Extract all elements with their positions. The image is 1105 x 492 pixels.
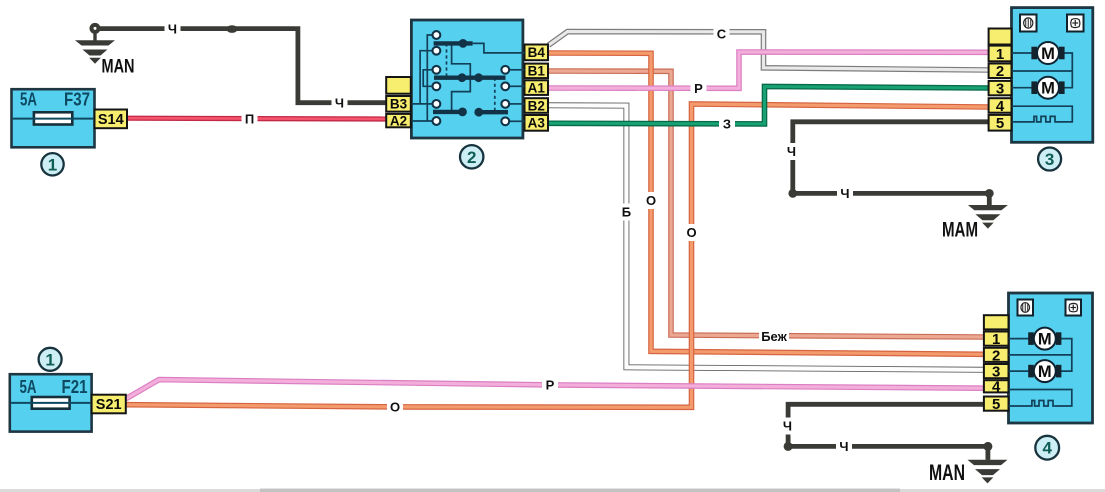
svg-text:О: О — [686, 225, 696, 240]
switch internal elbows — [452, 43, 471, 77]
node 4 — [1035, 436, 1059, 460]
terminal B1 — [525, 64, 549, 79]
svg-text:M: M — [1041, 80, 1055, 98]
svg-text:S14: S14 — [98, 112, 124, 128]
switch moving contact bottom — [433, 110, 466, 114]
svg-text:С: С — [717, 26, 727, 41]
switch moving contact middle — [434, 75, 506, 79]
svg-text:S21: S21 — [96, 397, 122, 413]
switch mechanical dashed links — [446, 43, 448, 77]
svg-text:В3: В3 — [390, 97, 408, 112]
motor M1 of unit 3 — [1031, 47, 1037, 60]
wire Ч black motor-3 pin5 to ground — [793, 122, 990, 204]
wire Р pink A1 to motor-3 pin1 — [549, 52, 989, 88]
motor unit 3 box — [1012, 8, 1093, 143]
svg-text:1: 1 — [996, 46, 1004, 63]
resistor (heater) 3 — [1012, 116, 1057, 122]
svg-text:В4: В4 — [528, 45, 546, 60]
svg-text:M: M — [1038, 363, 1052, 381]
svg-text:Ч: Ч — [783, 419, 792, 434]
resistor (heater) 4 — [1009, 401, 1055, 407]
svg-text:Р: Р — [546, 378, 555, 393]
switch internal link to B4 — [473, 43, 525, 53]
terminal empty (left of switch) — [386, 77, 411, 94]
svg-text:4: 4 — [1042, 439, 1052, 458]
node 2 (switch) — [460, 145, 483, 168]
node 1 (top fuse) — [41, 153, 63, 175]
icon washer 3 — [1020, 15, 1037, 32]
terminal strip 4 — [984, 315, 1009, 329]
ground MAN top-left — [93, 29, 96, 41]
svg-text:А1: А1 — [528, 80, 546, 95]
right contact stubs — [509, 69, 525, 71]
switch fixed contacts — [433, 31, 441, 39]
svg-text:F21: F21 — [62, 377, 88, 397]
node 3 — [1038, 148, 1061, 171]
svg-text:2: 2 — [467, 148, 476, 167]
svg-text:5: 5 — [992, 396, 1000, 413]
icon washer 4 — [1018, 300, 1034, 316]
svg-text:Беж: Беж — [761, 329, 787, 344]
motor M2 of unit 4 — [1028, 365, 1034, 378]
svg-text:2: 2 — [992, 347, 1000, 364]
wire Б white B2 to motor-4 pin3 — [549, 105, 984, 370]
svg-text:F37: F37 — [64, 90, 90, 110]
motor M2 of unit 3 — [1031, 81, 1037, 94]
connector S21 — [92, 395, 126, 414]
motor unit 4 internal wires — [1009, 338, 1031, 340]
wire О orange B4 to motor-4 pin2 — [549, 53, 984, 354]
wire Ч black motor-4 pin5 to ground — [788, 404, 988, 457]
switch box 2 — [411, 20, 523, 138]
fuse element F21 — [32, 397, 70, 409]
icon lamp washer 3 — [1067, 15, 1084, 32]
wire Беж beige B1 to motor-4 pin1 — [549, 71, 984, 337]
svg-text:1: 1 — [45, 350, 54, 369]
ground МАМ right — [968, 205, 1008, 210]
ground MAN bottom-right — [968, 460, 1008, 465]
svg-text:3: 3 — [1045, 150, 1054, 169]
svg-text:П: П — [245, 111, 254, 126]
fuse element F37 — [34, 112, 72, 124]
terminal B2 — [525, 98, 549, 113]
svg-text:МАМ: МАМ — [942, 219, 978, 242]
svg-text:А3: А3 — [528, 116, 546, 131]
terminal A2 — [386, 114, 411, 127]
svg-text:4: 4 — [992, 379, 1001, 396]
svg-text:5A: 5A — [20, 90, 37, 110]
motor M1 of unit 4 — [1028, 332, 1034, 345]
junction on black wire — [226, 25, 237, 33]
switch internal wiring left rails — [427, 35, 432, 121]
wire З green A3 to motor-3 pin3 — [549, 87, 989, 124]
wire С grey B4 to motor-3 pin2 — [549, 32, 989, 70]
svg-text:О: О — [390, 400, 400, 415]
terminal B4 — [525, 45, 549, 61]
svg-text:Ч: Ч — [335, 95, 344, 110]
svg-text:Р: Р — [694, 81, 703, 96]
svg-text:Ч: Ч — [840, 186, 849, 201]
svg-text:Ч: Ч — [839, 439, 848, 454]
svg-text:MAN: MAN — [102, 57, 135, 78]
svg-text:1: 1 — [992, 331, 1000, 348]
decorative — [0, 489, 1105, 492]
svg-text:А2: А2 — [390, 113, 407, 128]
fuse box F21 — [10, 374, 92, 431]
svg-text:О: О — [646, 193, 656, 208]
node 1 (bottom fuse) — [39, 348, 62, 371]
switch moving contact top — [434, 41, 473, 45]
icon lamp washer 4 — [1066, 300, 1082, 316]
terminal strip 3 — [989, 29, 1012, 45]
wire О orange S21 to motor-3 pin4 — [126, 104, 989, 407]
svg-text:M: M — [1041, 45, 1055, 63]
terminal B3 — [386, 96, 411, 112]
fuse box F37 — [12, 89, 95, 147]
svg-text:1: 1 — [48, 155, 57, 174]
svg-text:3: 3 — [996, 81, 1004, 98]
wire Р pink S21 to motor-4 pin4 — [126, 380, 984, 399]
svg-text:Б: Б — [622, 205, 631, 220]
svg-text:4: 4 — [996, 98, 1005, 115]
svg-text:M: M — [1038, 331, 1052, 349]
motor unit 4 box — [1009, 293, 1093, 423]
svg-text:В2: В2 — [528, 98, 545, 113]
terminal A3 — [525, 115, 549, 131]
wire Ч black ground to B3 — [95, 29, 387, 103]
svg-text:5A: 5A — [20, 377, 37, 397]
svg-text:2: 2 — [996, 63, 1004, 80]
svg-text:5: 5 — [996, 115, 1004, 132]
svg-text:В1: В1 — [528, 64, 546, 79]
connector S14 — [95, 110, 128, 129]
svg-text:Ч: Ч — [787, 144, 796, 159]
terminal A1 — [525, 80, 549, 95]
wire П red fuse F37 S14 to A2 — [126, 116, 387, 122]
svg-text:З: З — [723, 117, 731, 132]
motor unit 3 internal wires — [1012, 52, 1035, 54]
svg-text:MAN: MAN — [929, 460, 965, 485]
svg-text:Ч: Ч — [168, 21, 177, 36]
